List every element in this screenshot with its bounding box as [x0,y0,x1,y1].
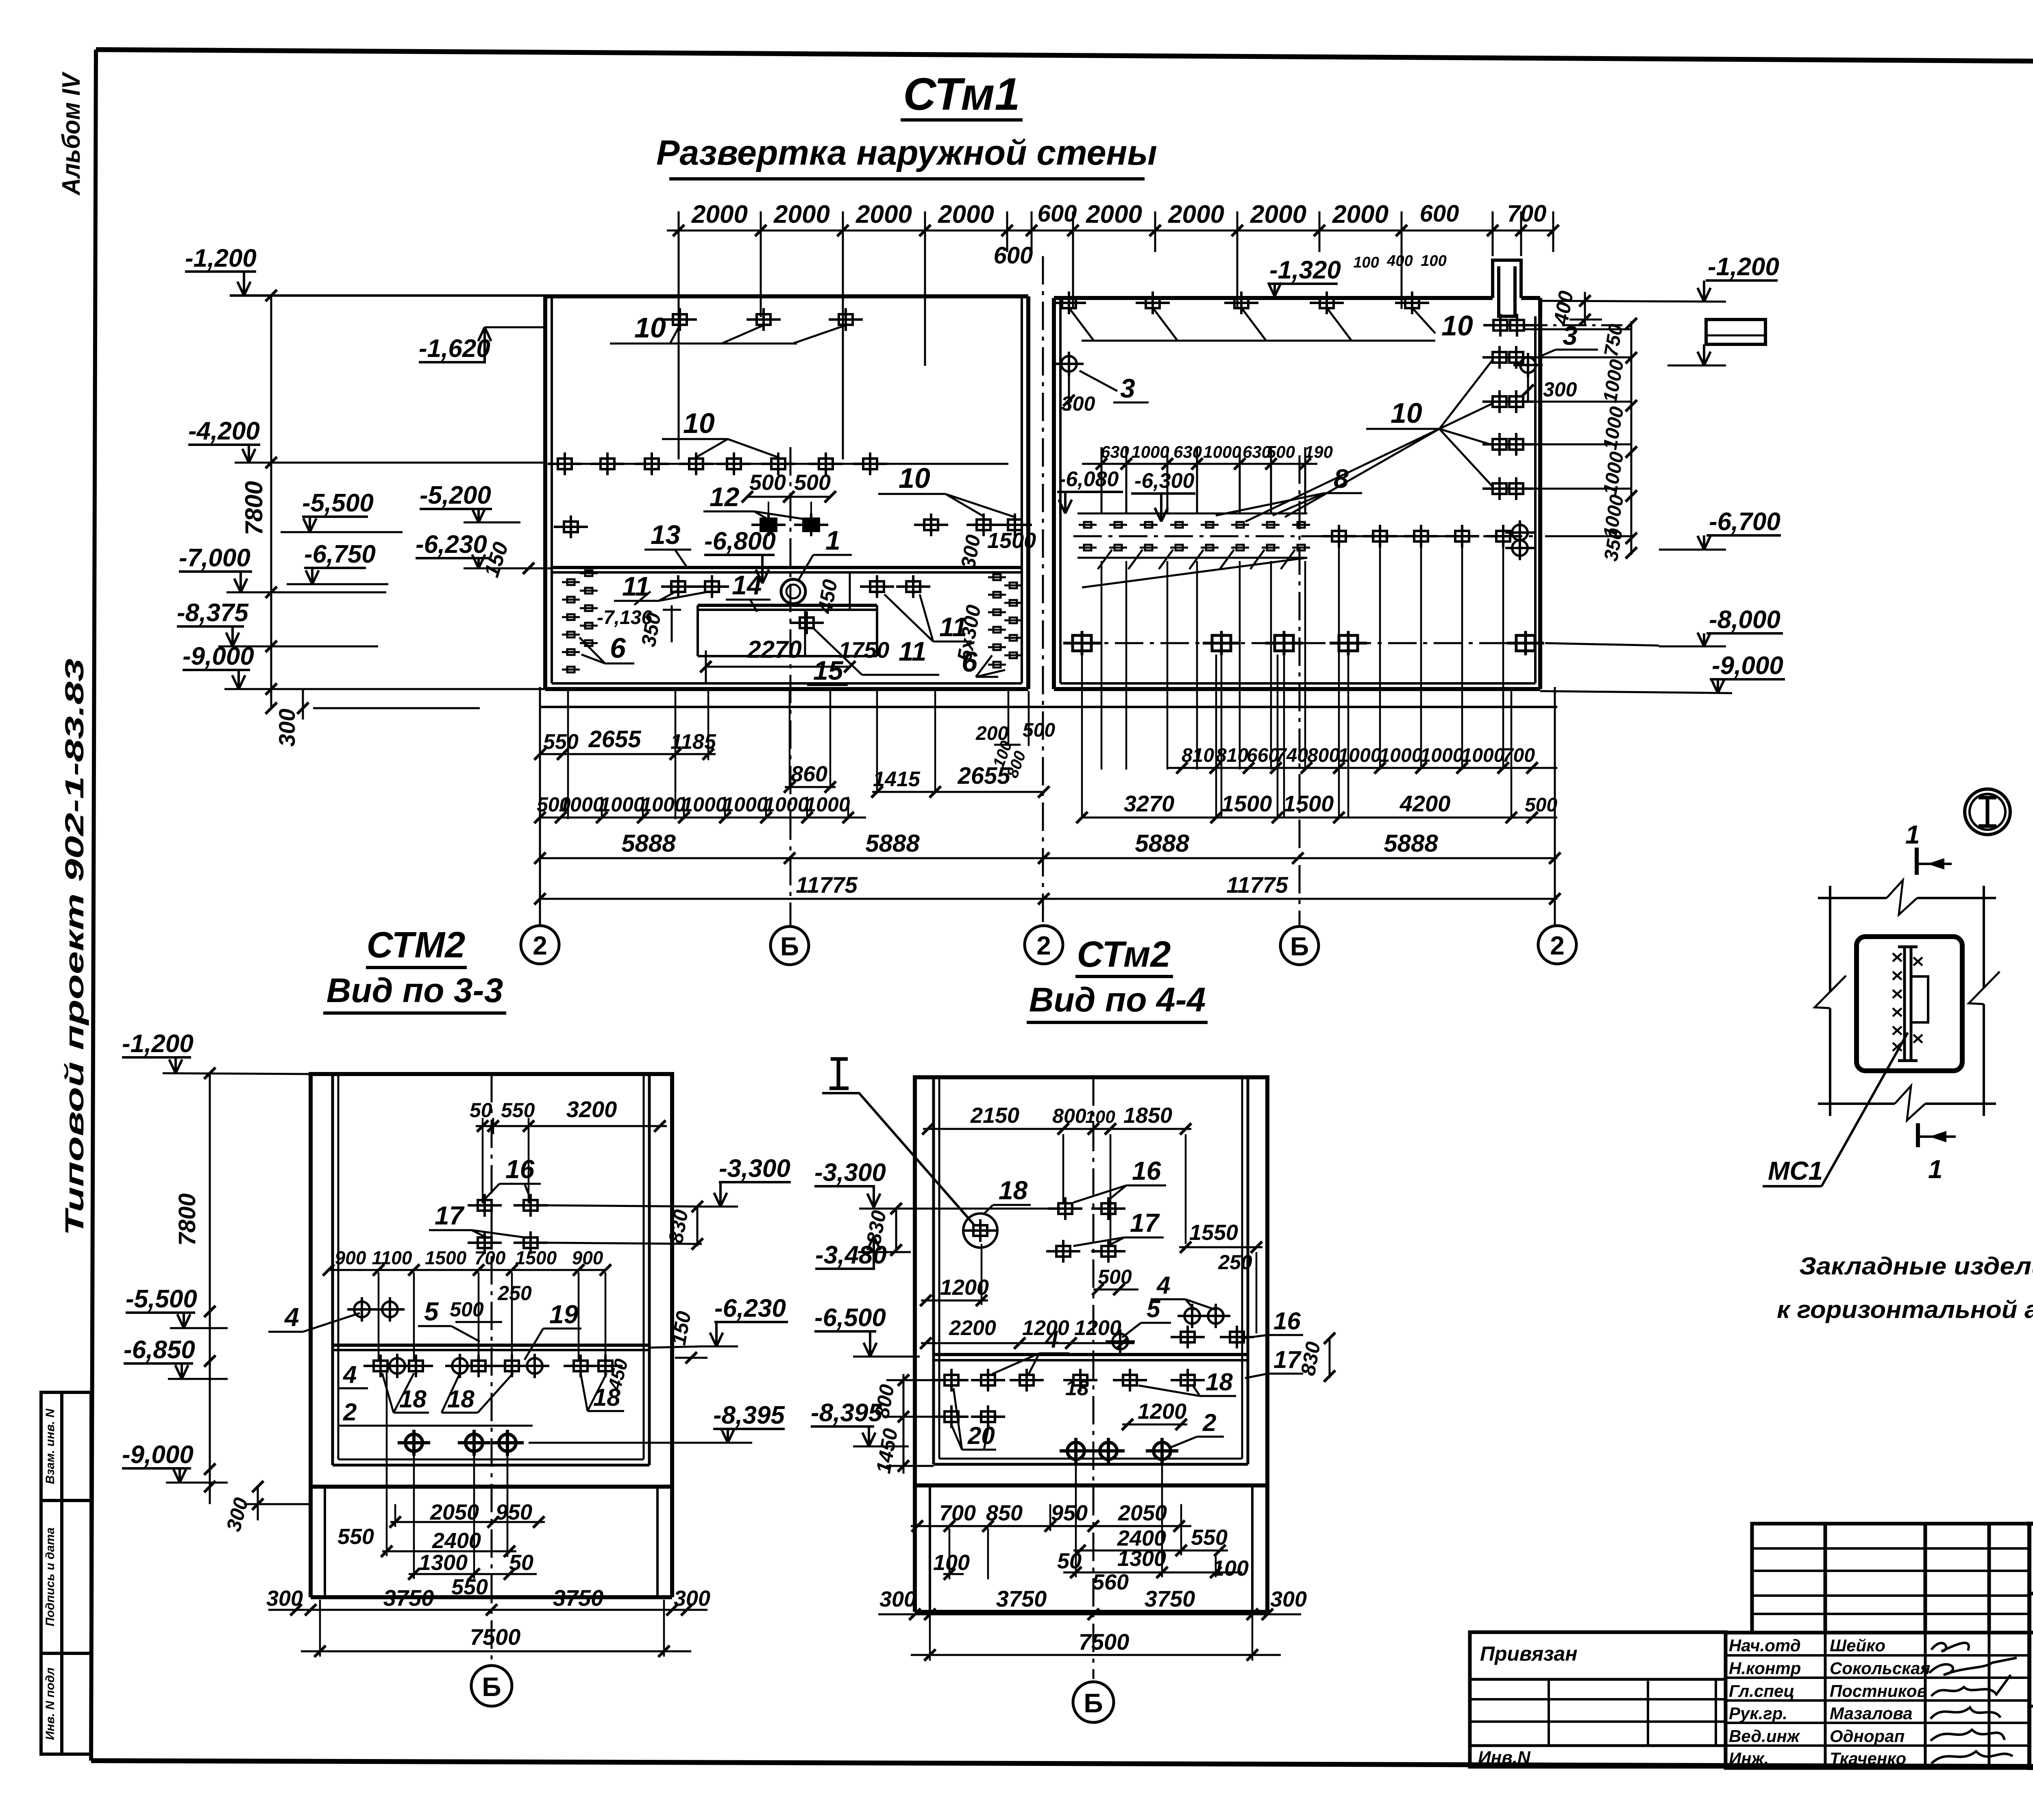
svg-text:Постников: Постников [1830,1681,1927,1700]
trough opening [698,605,877,656]
dim row 1415 / 2655 [871,763,1049,798]
svg-text:8: 8 [1334,463,1349,494]
open fasteners row 3 right [914,513,948,536]
gap elevation -3,300 (4-4) [814,1159,886,1207]
svg-text:Вед.инж: Вед.инж [1729,1726,1800,1746]
svg-text:18: 18 [399,1385,427,1413]
label 17 with pair [429,1201,528,1238]
svg-text:10: 10 [899,462,930,494]
4-4 bottom dims 300 3750 3750 300 [878,1586,1307,1620]
right ledge box [1704,320,1765,363]
svg-text:к горизонтальной арматуре с: к горизонтальной арматуре стен [1777,1296,2033,1323]
300 lower ledge dim [274,689,480,747]
circled fastener 18 [963,1213,997,1248]
axis line Б centre panel A [790,447,792,926]
label 20 fan [951,1388,996,1450]
node designation circle I [1965,789,2010,835]
panel 4-4 outline [915,1077,1267,1485]
dim row 550/2655/1185 [534,726,716,760]
830 dim (3-3) [664,1201,703,1250]
svg-text:2000: 2000 [1168,200,1224,228]
dim row 500+1000x7 [534,793,866,823]
svg-text:17: 17 [1130,1208,1160,1237]
label 19 [525,1300,581,1360]
right elevation -1,200 [1540,253,1779,302]
label 10 row1 with leaders [610,312,846,344]
3-3 foundation dims [337,1370,545,1599]
svg-text:19: 19 [549,1300,579,1329]
svg-text:Гл.спец: Гл.спец [1729,1681,1794,1700]
svg-text:СТм2: СТм2 [1077,934,1171,975]
svg-text:600: 600 [1038,200,1077,227]
svg-text:-6,230: -6,230 [714,1294,786,1322]
wall panel A outline [545,296,1028,689]
svg-text:-9,000: -9,000 [1712,652,1783,680]
elevation -6,800 [704,527,776,583]
svg-text:-6,500: -6,500 [814,1304,886,1332]
svg-text:Альбом IV: Альбом IV [57,72,85,196]
svg-text:10: 10 [1391,397,1422,429]
svg-text:Закладные изделия (зачерненн: Закладные изделия (зачерненные) приварит… [1799,1252,2033,1280]
svg-text:950: 950 [496,1500,532,1524]
svg-text:1000: 1000 [1203,442,1241,461]
panel B mid dash-dot axis row [1073,535,1533,537]
svg-text:500: 500 [450,1298,484,1321]
svg-text:550: 550 [543,730,579,754]
svg-text:1: 1 [825,525,840,555]
svg-text:10: 10 [683,407,715,439]
svg-text:1000: 1000 [764,793,809,816]
svg-text:4: 4 [1156,1272,1170,1299]
circle fasteners mid [1178,1304,1207,1328]
svg-text:700: 700 [475,1247,506,1268]
label 18 fans [382,1373,429,1413]
svg-text:1500: 1500 [987,528,1036,553]
svg-text:2200: 2200 [949,1316,996,1340]
svg-text:400: 400 [1387,252,1413,270]
svg-text:500: 500 [1525,794,1557,816]
svg-text:5: 5 [424,1297,439,1326]
svg-text:13: 13 [651,520,680,550]
elevation -1,620 [419,327,545,363]
right wall double circles [1505,520,1535,545]
svg-text:11: 11 [899,636,927,666]
svg-text:700: 700 [1507,200,1547,227]
svg-text:-6,800: -6,800 [704,527,776,555]
svg-text:1000: 1000 [1338,745,1382,766]
panel B top notch [1493,260,1521,316]
3-3 elevation -9,000 [122,1441,228,1483]
svg-text:3750: 3750 [553,1585,604,1611]
svg-text:Б: Б [1290,932,1309,961]
3-3 dim 7500 [301,1600,691,1657]
small dims 200 100 800 500 [975,720,1055,780]
cluster box lines [1077,513,1307,587]
column circle 2 [521,926,559,964]
filled fasteners row 3 [751,513,786,536]
dim row 860 [784,762,836,793]
label 13 [644,520,691,568]
svg-text:1000: 1000 [1461,745,1505,766]
svg-text:-5,500: -5,500 [126,1285,197,1313]
svg-text:2000: 2000 [855,200,912,228]
label 8 [1216,463,1362,515]
wall panel A mid ledge line -6,230 [552,568,1022,572]
column circle 2 [1025,926,1063,964]
svg-text:4: 4 [284,1302,299,1332]
bottom circle fasteners [398,1430,430,1456]
svg-text:1000: 1000 [1420,745,1464,766]
svg-text:18: 18 [999,1176,1028,1205]
label 16 with pair [485,1155,541,1199]
svg-text:Б: Б [482,1672,501,1702]
svg-text:15: 15 [813,655,844,685]
svg-text:Б: Б [1084,1688,1103,1718]
svg-text:100: 100 [1421,252,1446,270]
svg-text:-6,700: -6,700 [1709,508,1781,536]
below-line fastener row [364,1355,398,1377]
section mark 1 lower [1918,1123,1956,1184]
4-4 dim 7500 [911,1602,1281,1661]
detail inner plate pocket [1857,937,1962,1071]
svg-text:Развертка наружной стены: Развертка наружной стены [656,133,1157,172]
label 12 [703,482,807,520]
svg-text:СТм1: СТм1 [903,69,1020,120]
column circle Б (4-4) [1073,1682,1114,1722]
right elevation -9,000 [1540,652,1785,693]
section mark 1 upper [1905,820,1952,875]
svg-text:7500: 7500 [1079,1629,1130,1655]
svg-text:500: 500 [1267,442,1295,461]
svg-text:2000: 2000 [773,200,830,228]
svg-text:250: 250 [497,1282,532,1305]
3-3 top dims 50 550 3200 [470,1096,667,1203]
column circle Б [771,926,809,965]
svg-text:4200: 4200 [1400,791,1451,816]
svg-text:Вид по 3-3: Вид по 3-3 [326,971,503,1009]
3-3 elevation -5,500 [126,1285,228,1328]
svg-text:Нач.отд: Нач.отд [1729,1636,1801,1655]
label 2 (4-4) [1171,1409,1224,1447]
3-3 right elevation -6,230 [649,1294,788,1363]
svg-text:5888: 5888 [865,830,920,857]
svg-text:2: 2 [533,931,547,960]
3-3 right elevation -8,395 [529,1401,785,1443]
svg-text:-5,200: -5,200 [420,481,491,509]
left inventory strip boxes [41,1392,91,1754]
svg-text:-8,000: -8,000 [1709,606,1781,634]
left elevation -1,200 [185,244,545,296]
svg-text:-3,480: -3,480 [815,1241,887,1269]
svg-text:550: 550 [1191,1525,1228,1550]
panel A fastener row 2 line [552,463,1008,465]
label 10 row2 with leaders [662,407,778,457]
label 11 left [614,571,710,601]
3-3 right elevation -3,300 [702,1155,791,1207]
label 14 [726,570,771,612]
label 10 row3 [878,462,1015,517]
column circle Б (3-3) [471,1074,512,1706]
level line -3,300 into panel [859,1208,1056,1210]
label 10 fan [1245,359,1493,522]
svg-text:Б: Б [780,932,799,961]
elevation -1,320 [1268,256,1341,296]
svg-text:-4,200: -4,200 [188,417,260,445]
svg-text:1500: 1500 [1221,791,1272,816]
svg-text:1000: 1000 [640,793,686,816]
svg-text:Ткаченко: Ткаченко [1830,1749,1906,1768]
svg-text:3: 3 [1120,373,1135,403]
svg-text:Вид по 4-4: Вид по 4-4 [1029,981,1206,1019]
MC1 label plan [1763,1033,1908,1186]
svg-text:2: 2 [1550,931,1565,960]
svg-text:1000: 1000 [681,793,727,816]
svg-text:6: 6 [962,646,978,678]
label 6 right [962,646,1005,678]
svg-text:Инв.N: Инв.N [1478,1748,1531,1768]
svg-text:Взам. инв. N: Взам. инв. N [44,1408,57,1484]
svg-text:-1,200: -1,200 [1708,253,1779,281]
label 6 left [579,632,634,664]
svg-text:1000: 1000 [805,793,850,816]
1550 / 250 dims [1179,1220,1262,1333]
svg-text:660: 660 [1247,745,1279,766]
svg-text:1415: 1415 [873,768,921,791]
left elevation -4,200 [188,417,545,463]
circle fasteners upper [347,1297,377,1322]
svg-text:17: 17 [1273,1346,1302,1373]
panel 3-3 outline [311,1074,672,1487]
400 dim at notch [1549,289,1602,327]
svg-text:810: 810 [1182,745,1214,766]
svg-text:-3,300: -3,300 [814,1159,886,1187]
svg-text:100: 100 [1353,254,1379,271]
svg-text:250: 250 [1218,1251,1252,1274]
svg-text:3750: 3750 [383,1585,434,1611]
svg-text:10: 10 [634,312,666,344]
830 dim right [1296,1333,1335,1382]
left elevation -7,000 [179,544,386,592]
svg-text:СТМ2: СТМ2 [367,925,466,965]
svg-text:-6,080: -6,080 [1059,468,1119,491]
right elevation -6,700 [1659,508,1781,550]
label 4 row [337,1361,368,1388]
svg-text:860: 860 [791,762,827,786]
svg-text:3750: 3750 [996,1586,1047,1611]
svg-text:Сокольская: Сокольская [1830,1659,1930,1678]
svg-text:2: 2 [1036,931,1051,960]
wall panel B outline [1054,298,1540,689]
elevation -6,230 [416,531,552,580]
svg-text:3270: 3270 [1124,791,1175,816]
svg-text:5: 5 [1147,1295,1161,1322]
svg-text:2: 2 [343,1398,357,1426]
svg-text:7800: 7800 [174,1193,200,1246]
svg-text:1550: 1550 [1189,1220,1238,1245]
svg-text:1000: 1000 [1379,745,1423,766]
dim row 3270 1500 1500 4200 500 [1076,791,1557,823]
dim row 810 810 660 740 800 1000x4 700 [1167,745,1557,774]
label 11 mid right [884,594,972,642]
svg-text:1000: 1000 [1131,442,1169,461]
label 18 to circle [983,1176,1031,1215]
svg-text:1100: 1100 [372,1247,412,1268]
label 1 and opening circle [781,525,852,604]
elevation -6,080 [1057,468,1123,513]
svg-text:Привязан: Привязан [1480,1642,1578,1665]
svg-text:Инж.: Инж. [1729,1749,1769,1768]
svg-text:2270: 2270 [747,636,801,663]
label 10 top row leaders [1069,308,1435,341]
svg-text:700: 700 [939,1501,976,1525]
2200 1200 1200 row [920,1316,1134,1349]
svg-text:-1,320: -1,320 [1269,256,1341,284]
dim row 5888 x4 [534,830,1561,864]
panel A fastener row 2 [548,452,582,475]
gap elevation -6,500 [814,1304,920,1357]
master vertical dimension line 7800 [270,296,272,708]
elevation -6,300 [1131,469,1195,522]
right wall pin column [988,574,1006,580]
svg-text:18: 18 [1206,1368,1233,1396]
svg-text:100: 100 [1085,1107,1115,1127]
axis line 2 left [539,687,541,926]
svg-text:3750: 3750 [1145,1586,1195,1611]
svg-text:17: 17 [435,1201,465,1230]
svg-text:600: 600 [994,242,1033,269]
thick mid line -6,850 [333,1344,649,1347]
axis line 2 right [1554,687,1556,926]
3-3 mid dims 900 1100 1500 700 1500 900 [323,1247,611,1362]
label 3 left with circle fastener [1054,352,1084,376]
svg-text:6: 6 [610,632,626,664]
500 500 small dims [742,470,836,517]
svg-text:14: 14 [732,570,762,600]
gap elevation -3,480 [815,1236,911,1269]
svg-text:-7,000: -7,000 [179,544,250,572]
elevation -5,200 [420,481,520,522]
names table [1726,1633,2029,1768]
gap elevation -8,395 (4-4) [811,1399,909,1446]
svg-text:-5,500: -5,500 [302,489,374,517]
3-3 elevation -6,850 [124,1336,228,1379]
svg-text:630: 630 [1101,442,1129,461]
svg-text:-6,230: -6,230 [416,531,487,559]
svg-text:Н.контр: Н.контр [1729,1659,1801,1678]
below-line fasteners 4-4 [934,1369,969,1392]
svg-text:Типовой проект 902-1-83.83: Типовой проект 902-1-83.83 [60,659,89,1236]
svg-text:3200: 3200 [566,1096,617,1122]
-7,136 small elevation [597,591,652,628]
svg-text:1500: 1500 [515,1247,557,1268]
svg-text:2000: 2000 [1332,200,1389,228]
1200 dim left [920,1244,989,1306]
svg-text:5888: 5888 [1135,830,1189,857]
svg-text:18: 18 [1065,1376,1089,1400]
svg-text:500: 500 [794,470,831,495]
below-line fasteners [661,575,695,598]
svg-text:16: 16 [1273,1307,1301,1335]
label 4 mid [992,1326,1069,1374]
svg-text:Подпись и дата: Подпись и дата [44,1527,57,1626]
svg-text:2: 2 [1202,1409,1216,1436]
svg-text:-7,136: -7,136 [597,607,652,628]
left bracket dims 800 1450 [870,1374,947,1475]
axis line Б panel B [1299,455,1301,926]
svg-text:-6,750: -6,750 [304,540,376,568]
svg-text:900: 900 [572,1247,603,1268]
svg-text:2000: 2000 [938,200,994,228]
bottom circle fasteners 4-4 [1060,1438,1092,1464]
svg-text:100: 100 [1212,1556,1249,1581]
500 dim [1092,1266,1138,1295]
4-4 foundation dims [911,1460,1249,1594]
svg-text:1850: 1850 [1123,1103,1172,1128]
svg-text:190: 190 [1304,442,1333,461]
panel A single fastener above row2 left edge [554,515,588,538]
svg-text:1300: 1300 [419,1550,468,1575]
svg-text:900: 900 [335,1247,366,1268]
svg-text:5888: 5888 [621,830,676,857]
right elevation -8,000 [1545,606,1783,646]
label 16 (4-4) [1073,1156,1166,1202]
svg-text:-9,000: -9,000 [183,642,254,670]
column circle Б [1280,926,1319,965]
svg-text:11775: 11775 [796,872,858,898]
svg-text:2050: 2050 [1118,1501,1167,1525]
svg-text:1000: 1000 [723,793,768,816]
ledge line under panels [541,706,1557,708]
svg-text:550: 550 [337,1524,374,1549]
svg-text:1300: 1300 [1117,1546,1166,1571]
detail outer square with breaks [1815,880,2000,1120]
svg-text:2050: 2050 [430,1500,479,1524]
svg-text:-6,300: -6,300 [1134,469,1195,493]
panel B bottom big squares row [1069,642,1537,644]
svg-text:11775: 11775 [1226,872,1288,898]
svg-text:-8,375: -8,375 [177,599,249,627]
svg-text:-8,395: -8,395 [811,1399,883,1427]
svg-text:-3,300: -3,300 [719,1155,790,1183]
svg-text:-6,850: -6,850 [124,1336,195,1364]
extension verticals panel B [1082,545,1511,819]
signatures [1929,1643,2017,1763]
svg-text:2655: 2655 [588,726,641,752]
svg-text:600: 600 [1420,200,1459,227]
label 4 left outside [268,1302,360,1332]
thick mid line -6,800 (4-4) [934,1353,1248,1356]
svg-text:1000: 1000 [559,793,604,816]
svg-text:Мазалова: Мазалова [1830,1704,1913,1723]
svg-text:-1,200: -1,200 [122,1030,194,1058]
section mark I with leader [822,1059,974,1224]
svg-text:7800: 7800 [240,481,268,535]
label 15 [807,655,848,685]
svg-text:800: 800 [1307,745,1340,766]
svg-text:Однорап: Однорап [1830,1726,1905,1746]
svg-text:50: 50 [470,1099,492,1122]
svg-text:2150: 2150 [970,1103,1019,1128]
svg-text:1: 1 [1905,820,1920,849]
svg-text:Рук.гр.: Рук.гр. [1729,1704,1787,1723]
centreline 4-4 [1093,1077,1095,1679]
notch pin pair with axis [1483,314,1517,337]
privyazan table [1470,1632,1726,1767]
panel A fastener row 1 [663,308,697,331]
left elevation -6,750 [287,540,388,584]
svg-text:4: 4 [1045,1326,1058,1353]
panel B top fastener row [1052,291,1086,314]
